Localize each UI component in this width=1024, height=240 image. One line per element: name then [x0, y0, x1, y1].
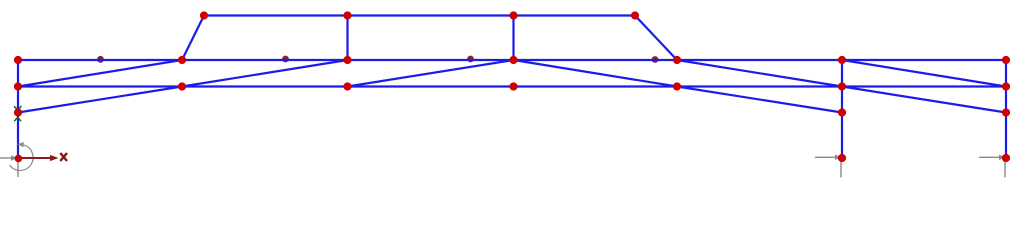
- joint node (18,86.5): [14, 82, 22, 90]
- joint node (182,60): [178, 56, 186, 64]
- member: diagonal D2: [182, 60, 348, 87]
- member: right column F: [1005, 60, 1007, 158]
- node marker J-d (small dark joint dot): [652, 56, 659, 63]
- member: diagonal D3: [348, 60, 514, 87]
- node marker J-a (small dark joint dot): [97, 56, 104, 63]
- joint node base E (842,158): [838, 154, 846, 162]
- member: right column E: [841, 60, 843, 158]
- joint node base F (1006,158): [1002, 154, 1010, 162]
- global origin symbol: gray axis lines: [0, 158, 18, 177]
- joint node (842,60): [838, 56, 846, 64]
- member: diagonal D1: [18, 60, 182, 87]
- joint node (18,60): [14, 56, 22, 64]
- joint node (513.5,86.5): [509, 82, 517, 90]
- joint node (347.5,86.5): [343, 82, 351, 90]
- member: left end-post slope: [182, 16, 204, 61]
- member: lower chord: [18, 85, 1006, 87]
- member: diagonal D4: [514, 60, 678, 87]
- joint node (1006,112.5): [1002, 108, 1010, 116]
- joint node (1006,86.5): [1002, 82, 1010, 90]
- joint node (182,86.5): [178, 82, 186, 90]
- joint node (1006,60): [1002, 56, 1010, 64]
- joint node (842,112.5): [838, 108, 846, 116]
- member: vertical hanger V1: [346, 16, 348, 61]
- joint node (18,112.5): [14, 108, 22, 116]
- joint node (204,15.5): [200, 11, 208, 19]
- joint node (513.5,60): [509, 56, 517, 64]
- member: diagonal D5: [677, 60, 842, 87]
- global origin symbol: rotation arc: [10, 145, 34, 171]
- member: diagonal D9: [842, 87, 1006, 113]
- joint node (513.5,15.5): [509, 11, 517, 19]
- node marker J-b (small dark joint dot): [282, 56, 289, 63]
- member: right end-post slope: [635, 16, 677, 61]
- joint node (347.5,60): [343, 56, 351, 64]
- global origin symbol: arc arrowhead: [17, 142, 24, 147]
- member: diagonal D6: [842, 60, 1006, 87]
- joint node (677,60): [673, 56, 681, 64]
- global X axis arrow: [20, 157, 50, 159]
- joint node (842,86.5): [838, 82, 846, 90]
- support marker / grid tick at column F base: [979, 157, 1005, 177]
- global X axis label: [60, 153, 67, 161]
- node marker J-c (small dark joint dot): [467, 56, 474, 63]
- support marker / grid tick at column E base: [815, 157, 841, 177]
- joint node (347.5,15.5): [343, 11, 351, 19]
- member: diagonal D7: [18, 87, 182, 113]
- joint local-axes ticks (green) at node (18,112.5): [14, 106, 21, 120]
- member: top chord: [204, 14, 635, 16]
- member: diagonal D8: [677, 87, 842, 113]
- joint node (635,15.5): [631, 11, 639, 19]
- member: vertical hanger V2: [512, 16, 514, 61]
- member: upper chord: [18, 59, 1006, 61]
- member: left column: [17, 60, 19, 158]
- joint node origin (18,158): [15, 155, 23, 163]
- joint node (677,86.5): [673, 82, 681, 90]
